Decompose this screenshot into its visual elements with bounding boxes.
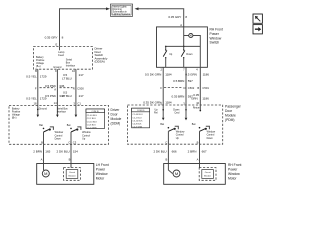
svg-text:2 DK BLU: 2 DK BLU xyxy=(153,149,166,153)
svg-text:0.35 GRY: 0.35 GRY xyxy=(45,36,58,40)
svg-text:Feed: Feed xyxy=(58,54,64,57)
svg-text:R: R xyxy=(73,86,75,90)
driver door switch assembly dashed box xyxy=(34,46,93,69)
switch contact Down xyxy=(181,46,193,67)
svg-text:C3: C3 xyxy=(73,141,77,145)
PDM input Down signal xyxy=(173,105,187,120)
svg-text:0.5 GRN: 0.5 GRN xyxy=(185,72,197,76)
svg-text:Circuit: Circuit xyxy=(205,171,211,174)
svg-text:Down: Down xyxy=(186,53,193,56)
pin C DDM bottom with C3 xyxy=(68,141,76,145)
svg-text:0.35 BRN: 0.35 BRN xyxy=(171,94,184,98)
svg-text:M: M xyxy=(175,171,178,176)
svg-text:1729: 1729 xyxy=(40,75,47,79)
wire label 0.35 GRY 8 (left) xyxy=(45,36,64,40)
DDM connector table xyxy=(86,109,105,129)
lamp branch wire xyxy=(184,36,201,68)
label 0.5 PNK 336 lower xyxy=(45,94,65,98)
DDSA serial bus interface text xyxy=(66,59,76,68)
PDM lamp return xyxy=(193,105,201,111)
svg-text:C502: C502 xyxy=(188,86,195,90)
svg-text:1729: 1729 xyxy=(40,97,47,101)
svg-text:Window: Window xyxy=(96,172,108,176)
svg-text:Module: Module xyxy=(111,117,122,121)
svg-text:(B+): (B+) xyxy=(12,116,17,119)
connector C502 pins F D xyxy=(160,86,194,90)
passenger door module dashed box xyxy=(128,105,223,144)
svg-text:217: 217 xyxy=(79,73,84,77)
icon button: resize diagonal arrow xyxy=(253,14,262,23)
svg-text:Rel: Rel xyxy=(154,112,158,115)
PDM window control up switch xyxy=(160,123,184,144)
svg-text:Ground: Ground xyxy=(39,107,48,110)
label 0.5 DK GRN 1184 xyxy=(145,72,172,76)
label RH Front Power Window Motor xyxy=(228,163,241,181)
svg-text:2 BRN: 2 BRN xyxy=(33,149,42,153)
svg-text:C3-10 BLK: C3-10 BLK xyxy=(132,121,143,123)
svg-text:154: 154 xyxy=(73,149,78,153)
svg-text:GRN: GRN xyxy=(191,97,198,101)
switch contact Up xyxy=(163,46,173,67)
label 2 DK BLU 154 xyxy=(57,149,79,153)
svg-text:LT BLU: LT BLU xyxy=(62,94,72,98)
svg-text:Switch: Switch xyxy=(210,41,220,45)
svg-text:1186: 1186 xyxy=(203,72,210,76)
wire BRN 667 PDM to RH motor xyxy=(199,144,201,163)
svg-text:C500: C500 xyxy=(77,87,84,91)
wire DK BLU 154 DDM to LH motor xyxy=(70,144,72,163)
svg-text:Interface: Interface xyxy=(57,110,67,113)
svg-text:A: A xyxy=(180,23,182,27)
svg-text:Window: Window xyxy=(228,172,240,176)
svg-text:C1-40 BLU: C1-40 BLU xyxy=(87,115,98,117)
RH motor symbol M xyxy=(168,164,180,178)
wire DK BLU 666 PDM to RH motor xyxy=(167,144,169,163)
svg-text:RH Front: RH Front xyxy=(228,163,241,167)
svg-text:Bat: Bat xyxy=(192,123,196,126)
svg-text:A: A xyxy=(54,88,56,92)
LH motor circuit breaker xyxy=(64,164,81,181)
svg-text:B: B xyxy=(197,86,199,90)
label 0.5 BRN 597 xyxy=(173,79,193,83)
label 2 DK BLU 666 xyxy=(153,149,176,153)
PDM input Up signal xyxy=(154,105,164,120)
svg-text:0.5 DK GRN: 0.5 DK GRN xyxy=(145,72,161,76)
label 0.5 LT BLU 217 upper xyxy=(62,73,84,81)
svg-text:0.35 DK GRN: 0.35 DK GRN xyxy=(143,101,161,105)
icon button: next arrow xyxy=(253,25,262,34)
RH front power window switch box xyxy=(157,27,208,67)
illumination lamp xyxy=(189,33,193,37)
svg-text:Passenger: Passenger xyxy=(225,105,242,109)
label LH Front Power Window Motor xyxy=(96,163,109,181)
svg-text:(PDM): (PDM) xyxy=(225,118,235,122)
LH motor symbol M xyxy=(42,164,49,178)
svg-text:Breaker: Breaker xyxy=(204,175,211,177)
wire GRY dimming feed from RH switch to callout box xyxy=(135,7,184,27)
svg-text:0.5 YEL: 0.5 YEL xyxy=(26,75,37,79)
svg-text:C1: C1 xyxy=(77,102,81,106)
svg-text:Down: Down xyxy=(207,137,214,140)
label 0.35 BRN 597 xyxy=(171,94,193,98)
svg-text:C4-8 BLK: C4-8 BLK xyxy=(132,124,142,126)
wire LT BLU 217 DDSA to DDM xyxy=(75,69,77,105)
svg-text:B: B xyxy=(166,157,168,161)
svg-text:C2-2 BLU: C2-2 BLU xyxy=(132,117,142,119)
svg-text:0.5 PNK: 0.5 PNK xyxy=(45,94,56,98)
svg-text:C2-2 BLU: C2-2 BLU xyxy=(87,118,97,120)
svg-text:A: A xyxy=(41,157,43,161)
svg-text:165: 165 xyxy=(45,149,50,153)
svg-text:666: 666 xyxy=(172,149,177,153)
svg-text:LH Front: LH Front xyxy=(96,163,109,167)
svg-text:0.5 BRN: 0.5 BRN xyxy=(173,79,184,83)
svg-text:C: C xyxy=(165,140,167,144)
svg-text:18: 18 xyxy=(34,102,37,106)
switch common bus xyxy=(165,46,200,48)
svg-text:Ground: Ground xyxy=(53,66,62,69)
wire YEL 1729 DDSA to DDM xyxy=(37,69,39,105)
svg-text:Bat: Bat xyxy=(39,124,43,127)
svg-text:2 DK BLU: 2 DK BLU xyxy=(57,149,70,153)
label 0.5 GRN 1186 xyxy=(185,72,209,76)
connector C500 pins F A R xyxy=(35,86,84,91)
label 0.35 GRN 1186 xyxy=(191,93,209,101)
svg-text:B: B xyxy=(197,140,199,144)
svg-text:Motor: Motor xyxy=(228,176,237,180)
svg-text:B: B xyxy=(69,157,71,161)
svg-text:(B+): (B+) xyxy=(36,65,41,68)
LH front power window motor box xyxy=(37,164,94,185)
svg-text:667: 667 xyxy=(202,149,207,153)
svg-text:1184: 1184 xyxy=(165,101,172,105)
label Passenger Door Module (PDM) xyxy=(225,105,242,123)
svg-text:Door: Door xyxy=(225,109,233,113)
svg-text:217: 217 xyxy=(79,94,84,98)
svg-text:1184: 1184 xyxy=(165,72,172,76)
svg-text:14: 14 xyxy=(54,101,57,105)
svg-text:0.5 PNK: 0.5 PNK xyxy=(45,84,56,88)
driver door module dashed box xyxy=(9,105,109,144)
label 0.5 YEL 1729 upper xyxy=(26,75,47,79)
PDM window control down switch xyxy=(192,123,216,144)
svg-text:Lighting Systems: Lighting Systems xyxy=(113,13,131,16)
DDSA battery positive voltage text xyxy=(36,56,45,68)
svg-text:C4-8 BLK: C4-8 BLK xyxy=(87,125,97,127)
label 0.35 DK GRN 1184 xyxy=(143,101,172,105)
svg-text:(DDM): (DDM) xyxy=(111,122,121,126)
connector C501 pin B xyxy=(197,86,209,90)
label Driver Door Module (DDM) xyxy=(111,108,122,126)
svg-text:LT BLU: LT BLU xyxy=(62,77,72,81)
svg-text:Module: Module xyxy=(225,114,236,118)
DDM window control down switch xyxy=(39,124,63,144)
wire BRN 165 DDM to LH motor xyxy=(43,144,45,163)
svg-text:2 BRN: 2 BRN xyxy=(188,149,197,153)
DDM serial bus interface text xyxy=(57,107,69,113)
svg-text:Down: Down xyxy=(55,138,62,141)
svg-text:COM ID: COM ID xyxy=(137,110,145,112)
svg-text:C5-9 GRN: C5-9 GRN xyxy=(87,127,97,129)
label 0.5 LT BLU 217 lower xyxy=(62,91,84,99)
DDM input B+ xyxy=(37,105,40,117)
svg-text:10: 10 xyxy=(72,69,75,73)
DDM input ground xyxy=(56,105,59,117)
wire label 0.35 GRY 8 (right) xyxy=(168,15,187,19)
DDM battery positive voltage text xyxy=(12,107,21,119)
wire GRN 1186 lamp return to PDM xyxy=(199,67,201,105)
svg-text:Bat: Bat xyxy=(67,124,71,127)
wire PNK 336 DDSA to DDM xyxy=(56,69,58,105)
svg-text:C1-40 BLU: C1-40 BLU xyxy=(132,114,143,116)
svg-text:(DDSA): (DDSA) xyxy=(95,60,105,64)
svg-text:C3-10 BLK: C3-10 BLK xyxy=(87,121,98,123)
label 0.5 PNK 336 upper xyxy=(45,84,65,88)
svg-text:0.5 YEL: 0.5 YEL xyxy=(26,97,37,101)
svg-text:B: B xyxy=(41,141,43,145)
svg-text:C5-9 GRN: C5-9 GRN xyxy=(132,127,142,129)
DDSA lamp feed stub xyxy=(58,46,65,57)
svg-text:Bat: Bat xyxy=(160,123,164,126)
wire BRN 597 switch to PDM xyxy=(185,67,187,105)
svg-text:C: C xyxy=(68,141,70,145)
svg-text:Motor: Motor xyxy=(96,176,105,180)
label Driver Door Switch Assembly (DDSA) xyxy=(95,47,108,64)
svg-text:Power: Power xyxy=(228,167,238,171)
DDM input serial xyxy=(75,105,78,117)
label 2 BRN 667 xyxy=(188,149,207,153)
wire inside switch from pin A xyxy=(183,27,185,47)
svg-text:COM ID: COM ID xyxy=(91,111,99,113)
svg-text:Power: Power xyxy=(96,167,106,171)
svg-text:D: D xyxy=(183,86,185,90)
svg-text:Cmd: Cmd xyxy=(174,112,180,115)
label 2 BRN 165 xyxy=(33,149,50,153)
svg-text:Circuit: Circuit xyxy=(69,171,75,174)
svg-text:1186: 1186 xyxy=(202,97,209,101)
svg-text:Breaker: Breaker xyxy=(68,175,75,177)
svg-text:597: 597 xyxy=(188,79,193,83)
svg-text:336: 336 xyxy=(59,84,64,88)
svg-text:A: A xyxy=(197,157,199,161)
svg-text:Door: Door xyxy=(111,113,119,117)
callout box: Interior Lights Dimming Schematics xyxy=(111,4,133,16)
svg-text:0.35 GRY: 0.35 GRY xyxy=(168,15,181,19)
RH front power window motor box xyxy=(164,164,226,185)
label 0.5 YEL 1729 lower xyxy=(26,97,47,101)
svg-text:Interface: Interface xyxy=(66,65,76,68)
wire DK GRN 1184 switch to PDM xyxy=(162,67,164,105)
svg-text:B: B xyxy=(35,69,37,73)
PDM connector table xyxy=(132,108,150,128)
DDM window control up switch xyxy=(67,124,91,144)
label RH Front Power Window Switch xyxy=(210,28,223,45)
wire GRY dimming feed from DDSA to callout box xyxy=(60,7,111,46)
RH motor circuit breaker xyxy=(199,164,216,181)
svg-text:C501: C501 xyxy=(202,86,209,90)
svg-text:M: M xyxy=(44,171,47,176)
svg-text:Return: Return xyxy=(193,106,201,109)
svg-text:Driver: Driver xyxy=(111,108,121,112)
pin 3 DDM with C1 xyxy=(73,102,81,106)
